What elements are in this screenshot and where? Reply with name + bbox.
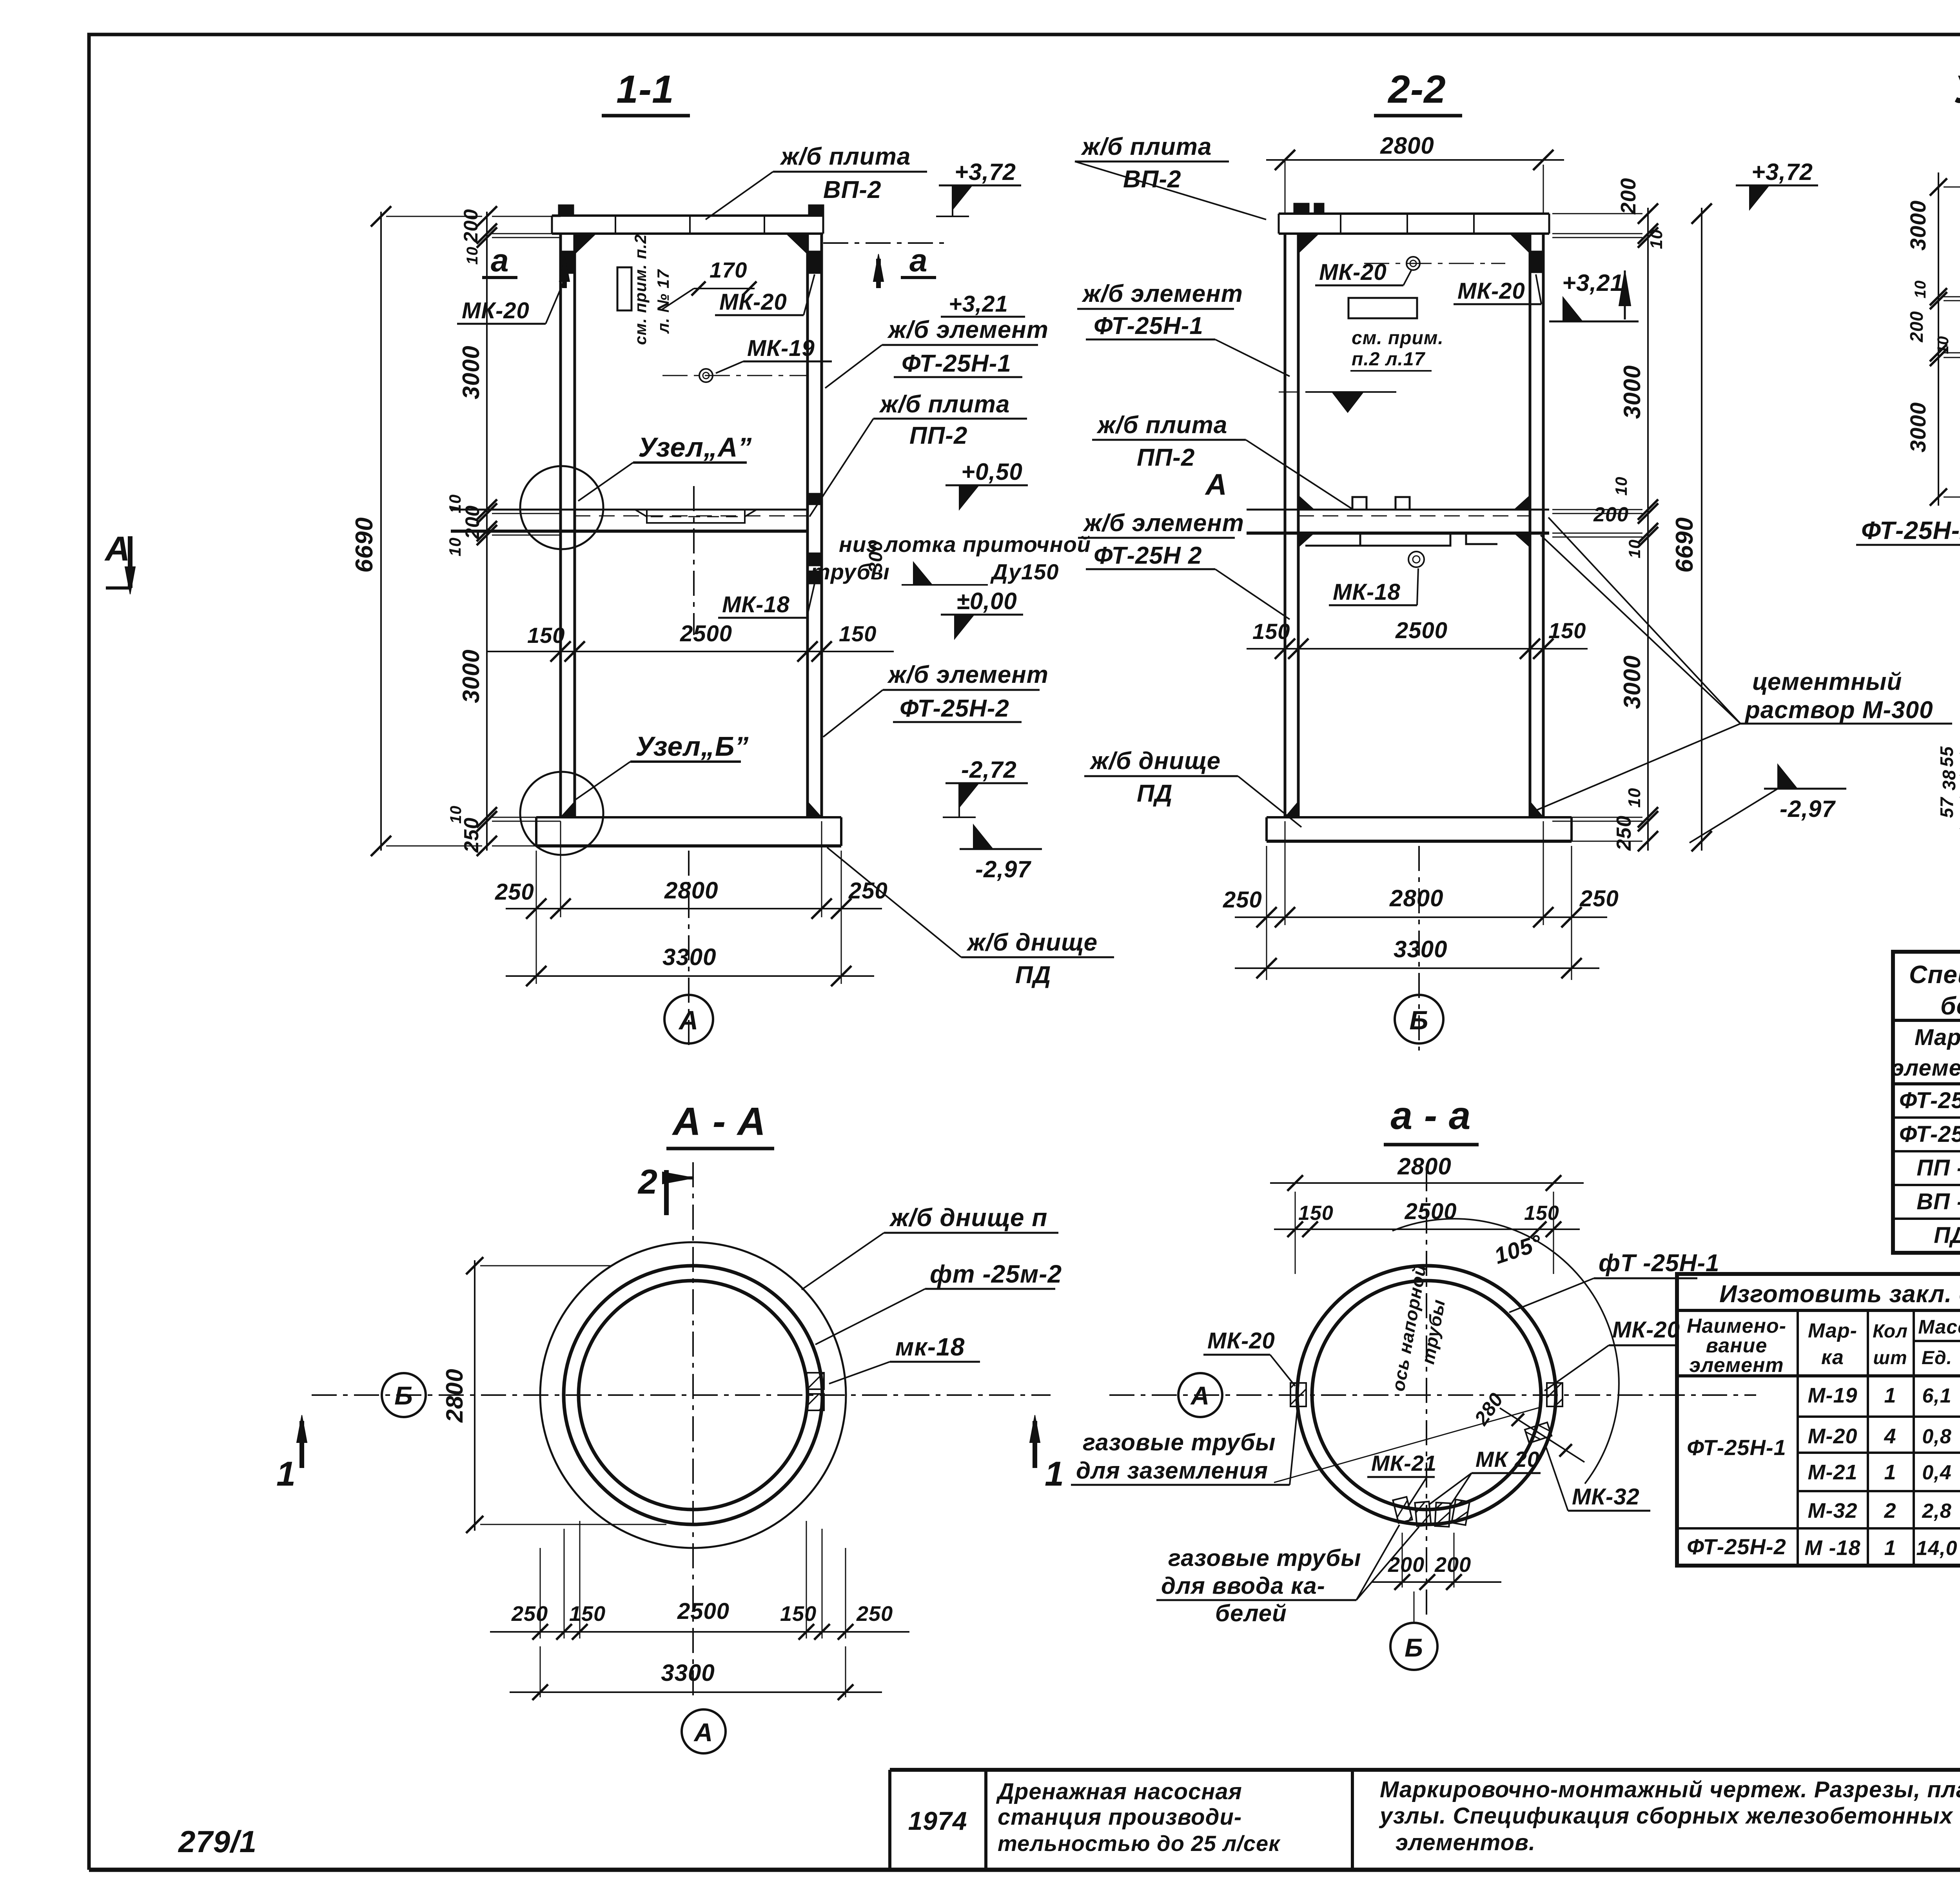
svg-text:+3,72: +3,72 xyxy=(1751,159,1813,185)
section 2-2 level mark in wall xyxy=(1305,391,1396,393)
section 1-1 top slab VP-2 xyxy=(552,214,823,217)
plan a-a ring joints left right xyxy=(1290,1383,1306,1406)
svg-text:10: 10 xyxy=(1912,280,1929,299)
svg-text:А: А xyxy=(1190,1381,1210,1410)
plan A-A base slab circle xyxy=(540,1242,846,1548)
svg-text:10: 10 xyxy=(1625,539,1644,559)
svg-text:ж/б днище: ж/б днище xyxy=(966,929,1098,956)
svg-text:раствор М-300: раствор М-300 xyxy=(1744,697,1933,724)
svg-text:МК-32: МК-32 xyxy=(1572,1484,1640,1510)
svg-text:10: 10 xyxy=(446,537,464,557)
svg-text:М-21: М-21 xyxy=(1808,1461,1857,1484)
svg-text:Изготовить закл. деталей: Изготовить закл. деталей xyxy=(1719,1281,1960,1308)
section 1-1 level +3.72 xyxy=(939,185,1021,187)
svg-text:ПП-2: ПП-2 xyxy=(909,422,967,449)
section 1-1 centre line at lotok xyxy=(693,486,695,635)
svg-text:2,8: 2,8 xyxy=(1922,1500,1951,1522)
svg-text:2500: 2500 xyxy=(1395,618,1448,643)
svg-text:10: 10 xyxy=(1647,229,1666,249)
svg-text:М-20: М-20 xyxy=(1808,1424,1857,1448)
plan a-a dims 200 200 xyxy=(1402,1533,1403,1588)
svg-text:3300: 3300 xyxy=(661,1660,715,1686)
section 1-1 opening slot xyxy=(617,267,632,310)
svg-text:150: 150 xyxy=(1298,1202,1334,1225)
svg-text:1: 1 xyxy=(276,1454,296,1493)
svg-text:1: 1 xyxy=(1884,1384,1896,1407)
section 1-1 MK-19 anchor circle xyxy=(699,369,713,382)
svg-text:Ду150: Ду150 xyxy=(990,559,1059,584)
svg-text:3000: 3000 xyxy=(1619,655,1645,709)
section 1-1 overall dim 6690 xyxy=(380,212,382,851)
svg-text:мк-18: мк-18 xyxy=(895,1333,965,1361)
section 2-2 level +3.72 right xyxy=(1736,185,1818,187)
svg-text:Дренажная насосная: Дренажная насосная xyxy=(996,1779,1242,1804)
section 1-1 wall bottom joints xyxy=(561,802,575,817)
svg-text:А: А xyxy=(693,1718,713,1747)
svg-text:МК-20: МК-20 xyxy=(1457,278,1525,304)
svg-text:узлы. Спецификация сборных: узлы. Спецификация сборных железобетонны… xyxy=(1379,1803,1954,1829)
svg-text:ПД: ПД xyxy=(1015,962,1051,989)
svg-text:ФТ-25Н-2: ФТ-25Н-2 xyxy=(900,695,1009,722)
svg-text:А - А: А - А xyxy=(671,1100,766,1143)
svg-text:элементов.: элементов. xyxy=(1396,1830,1535,1855)
svg-text:МК-18: МК-18 xyxy=(1333,579,1401,605)
section 1-1 bottom dims xyxy=(536,851,537,984)
section 1-1 middle slab PP-2 xyxy=(451,509,808,511)
svg-text:2800: 2800 xyxy=(1397,1153,1451,1179)
section 2-2 axis circle B xyxy=(1418,846,1420,1051)
plan A-A vertical dim 2800 xyxy=(474,1260,475,1531)
plan a-a centre lines xyxy=(1109,1394,1756,1396)
svg-text:250: 250 xyxy=(511,1602,548,1626)
svg-text:Мар-: Мар- xyxy=(1808,1319,1857,1342)
svg-text:п.2 л.17: п.2 л.17 xyxy=(1352,349,1426,370)
svg-text:Б: Б xyxy=(394,1381,413,1410)
section 2-2 joint corner plates at slab xyxy=(1298,495,1314,510)
svg-text:1974: 1974 xyxy=(908,1806,967,1835)
svg-text:МК-20: МК-20 xyxy=(1319,259,1387,285)
svg-text:для заземления: для заземления xyxy=(1076,1457,1268,1484)
svg-text:150: 150 xyxy=(839,621,877,646)
plan a-a 105 deg arc xyxy=(1392,1219,1619,1484)
svg-text:200: 200 xyxy=(1388,1553,1425,1577)
svg-text:2: 2 xyxy=(1884,1499,1896,1522)
svg-text:2800: 2800 xyxy=(664,877,718,904)
svg-text:ФТ-25Н-2: ФТ-25Н-2 xyxy=(1899,1121,1960,1147)
section 2-2 walls xyxy=(1284,234,1287,817)
svg-text:-2,97: -2,97 xyxy=(975,856,1031,882)
section 2-2 MK-20 anchor circle and axis xyxy=(1406,257,1420,270)
svg-text:цементный: цементный xyxy=(1752,668,1902,695)
section 2-2 right dim chain xyxy=(1647,208,1649,851)
section 1-1 cut marks a-a xyxy=(562,259,567,288)
svg-text:55: 55 xyxy=(1936,746,1957,767)
svg-text:А: А xyxy=(104,529,131,568)
section 2-2 opening slot horizontal xyxy=(1348,298,1417,318)
plan A-A bottom dims xyxy=(540,1548,541,1639)
svg-text:2800: 2800 xyxy=(441,1368,468,1423)
svg-text:ПП-2: ПП-2 xyxy=(1137,444,1195,471)
svg-text:Узел„А”: Узел„А” xyxy=(1954,67,1960,111)
plan a-a bottom joint cluster xyxy=(1393,1497,1412,1523)
svg-text:ФТ-25Н 2: ФТ-25Н 2 xyxy=(1094,542,1202,569)
svg-text:250: 250 xyxy=(1613,815,1635,851)
section 1-1 top embedded plates MK-20 xyxy=(558,205,574,216)
svg-text:2500: 2500 xyxy=(677,1599,730,1624)
plan A-A joint detail MK-18 right xyxy=(807,1373,824,1389)
svg-text:1-1: 1-1 xyxy=(616,67,674,111)
svg-text:М -18: М -18 xyxy=(1804,1536,1860,1560)
svg-text:3000: 3000 xyxy=(1619,365,1645,419)
svg-text:10: 10 xyxy=(1935,336,1952,354)
svg-text:250: 250 xyxy=(1579,886,1619,911)
svg-text:л. № 17: л. № 17 xyxy=(654,269,672,334)
svg-text:ж/б элемент: ж/б элемент xyxy=(1082,280,1243,307)
svg-text:+0,50: +0,50 xyxy=(961,459,1023,485)
svg-text:ФТ-25Н-1: ФТ-25Н-1 xyxy=(1899,1088,1960,1113)
section 2-2 dims 150 2500 150 xyxy=(1247,648,1588,650)
svg-text:2800: 2800 xyxy=(1389,885,1443,911)
svg-text:3000: 3000 xyxy=(458,649,484,703)
svg-text:газовые трубы: газовые трубы xyxy=(1083,1429,1276,1455)
svg-text:МК-20: МК-20 xyxy=(719,289,787,315)
node A floor slab PP-2 xyxy=(1944,300,1960,301)
table make embedded details xyxy=(1677,1274,1960,1566)
section 1-1 base slab PD xyxy=(536,816,841,818)
svg-text:А: А xyxy=(678,1005,699,1035)
svg-text:4: 4 xyxy=(1884,1424,1896,1448)
svg-text:+3,21: +3,21 xyxy=(1562,270,1624,296)
section 1-1 wall top joint plates xyxy=(562,251,573,274)
svg-text:фТ -25Н-1: фТ -25Н-1 xyxy=(1599,1250,1719,1277)
section 1-1 level -2.97 xyxy=(960,848,1042,850)
svg-text:МК-19: МК-19 xyxy=(747,336,815,361)
svg-text:ж/б элемент: ж/б элемент xyxy=(887,661,1049,688)
svg-text:200: 200 xyxy=(1593,503,1629,526)
plan a-a wall ring xyxy=(1297,1266,1556,1524)
svg-text:ж/б элемент: ж/б элемент xyxy=(1083,510,1244,537)
svg-text:+3,72: +3,72 xyxy=(955,159,1016,185)
svg-text:200: 200 xyxy=(1617,178,1640,214)
section 2-2 overall dim 6690 xyxy=(1701,208,1702,851)
svg-text:М-32: М-32 xyxy=(1808,1499,1857,1522)
svg-text:±0,00: ±0,00 xyxy=(956,588,1017,614)
svg-text:105°: 105° xyxy=(1491,1230,1545,1269)
svg-text:Узел„Б”: Узел„Б” xyxy=(635,731,749,762)
svg-text:279/1: 279/1 xyxy=(178,1824,257,1859)
svg-text:Маркировочно-монтажный чертеж: Маркировочно-монтажный чертеж. Разрезы, … xyxy=(1380,1777,1960,1802)
section 2-2 level -2.97 right xyxy=(1764,788,1846,790)
svg-text:станция производи-: станция производи- xyxy=(998,1804,1242,1830)
svg-text:Б: Б xyxy=(1409,1005,1428,1035)
svg-text:ж/б плита: ж/б плита xyxy=(1081,133,1212,160)
plan A-A axis B circle xyxy=(382,1373,426,1417)
svg-text:10: 10 xyxy=(1625,788,1644,808)
svg-text:Марка: Марка xyxy=(1915,1025,1960,1050)
svg-text:Узел„А”: Узел„А” xyxy=(638,432,752,463)
svg-text:элемента: элемента xyxy=(1891,1055,1960,1081)
svg-text:6,1: 6,1 xyxy=(1922,1384,1951,1407)
section 1-1 dims 150 2500 150 xyxy=(487,651,894,652)
svg-text:Б: Б xyxy=(1405,1633,1423,1662)
svg-text:150: 150 xyxy=(1548,618,1586,643)
svg-text:150: 150 xyxy=(1252,619,1290,644)
svg-text:150: 150 xyxy=(527,623,565,648)
svg-text:150: 150 xyxy=(1524,1202,1559,1225)
section 2-2 bottom dims xyxy=(1266,846,1267,980)
svg-text:14,0: 14,0 xyxy=(1916,1537,1957,1560)
svg-text:ФТ-25Н-1: ФТ-25Н-1 xyxy=(1687,1435,1786,1460)
plan a-a axis circle B xyxy=(1390,1623,1437,1670)
svg-text:для ввода ка-: для ввода ка- xyxy=(1161,1573,1325,1599)
svg-text:-2,97: -2,97 xyxy=(1780,796,1836,822)
section 1-1 level +0.50 xyxy=(946,484,1028,486)
svg-text:тельностью до 25 л/сек: тельностью до 25 л/сек xyxy=(998,1831,1281,1856)
svg-text:2800: 2800 xyxy=(1380,132,1434,159)
node A dim chain left xyxy=(1938,172,1939,506)
svg-text:элемент: элемент xyxy=(1689,1354,1784,1377)
svg-text:2500: 2500 xyxy=(680,621,732,646)
svg-text:3000: 3000 xyxy=(1906,200,1930,251)
section 2-2 wall embedded marks xyxy=(1531,251,1542,273)
svg-text:ПП - 2: ПП - 2 xyxy=(1916,1155,1960,1181)
svg-text:ВП - 2: ВП - 2 xyxy=(1916,1189,1960,1214)
svg-text:200: 200 xyxy=(1906,311,1927,343)
svg-text:Ед.: Ед. xyxy=(1922,1348,1952,1368)
svg-text:200: 200 xyxy=(460,209,482,243)
specification table of precast elements xyxy=(1893,952,1960,1253)
svg-text:250: 250 xyxy=(460,817,483,853)
svg-text:170: 170 xyxy=(710,258,747,282)
svg-text:6690: 6690 xyxy=(351,517,378,573)
svg-text:38: 38 xyxy=(1939,769,1959,790)
svg-text:МК-18: МК-18 xyxy=(722,592,790,617)
section 1-1 walls FT-25N xyxy=(559,234,562,817)
svg-text:ФТ-25Н-1: ФТ-25Н-1 xyxy=(902,350,1011,377)
svg-text:0,4: 0,4 xyxy=(1922,1461,1951,1484)
plan a-a MK-32 joint xyxy=(1525,1423,1552,1443)
svg-text:МК 20: МК 20 xyxy=(1475,1447,1540,1472)
svg-text:3000: 3000 xyxy=(1906,402,1930,453)
svg-text:2500: 2500 xyxy=(1404,1199,1457,1224)
svg-text:ВП-2: ВП-2 xyxy=(823,176,882,203)
svg-text:а - а: а - а xyxy=(1390,1094,1471,1138)
svg-text:фт -25м-2: фт -25м-2 xyxy=(930,1260,1062,1288)
svg-text:бетонных элементов.: бетонных элементов. xyxy=(1940,992,1960,1020)
svg-text:3300: 3300 xyxy=(1394,936,1447,962)
svg-text:300: 300 xyxy=(866,540,886,573)
section 2-2 base slab PD xyxy=(1267,816,1572,818)
svg-text:ж/б плита: ж/б плита xyxy=(780,143,911,170)
svg-text:а: а xyxy=(491,243,509,278)
svg-text:250: 250 xyxy=(495,879,534,905)
svg-text:А: А xyxy=(1205,468,1227,501)
svg-text:ФТ-25Н-2: ФТ-25Н-2 xyxy=(1687,1534,1786,1559)
section 1-1 node A circle xyxy=(520,466,603,549)
section 2-2 label MK-18 xyxy=(1408,552,1424,567)
section 1-1 slab recess (lotok) xyxy=(647,510,745,523)
section 2-2 top slab VP-2 xyxy=(1279,212,1549,215)
svg-text:ж/б элемент: ж/б элемент xyxy=(887,316,1049,343)
section 2-2 level +3.21 xyxy=(1549,321,1639,323)
section 1-1 axis dash-dot at top xyxy=(823,242,949,244)
svg-text:ФТ-25Н-2: ФТ-25Н-2 xyxy=(1861,516,1960,544)
svg-text:3000: 3000 xyxy=(458,345,484,399)
svg-text:1: 1 xyxy=(1884,1536,1896,1560)
svg-text:М-19: М-19 xyxy=(1808,1384,1857,1407)
svg-text:см. прим. п.2: см. прим. п.2 xyxy=(631,234,650,345)
svg-text:200: 200 xyxy=(1434,1553,1471,1577)
svg-text:а: а xyxy=(909,243,928,278)
svg-text:Масса в кг: Масса в кг xyxy=(1918,1316,1960,1338)
svg-text:2-2: 2-2 xyxy=(1387,67,1446,111)
svg-text:57: 57 xyxy=(1936,797,1957,818)
svg-text:газовые трубы: газовые трубы xyxy=(1168,1545,1361,1571)
svg-text:ПД: ПД xyxy=(1137,780,1172,807)
svg-text:Спецификация сборных железо-: Спецификация сборных железо- xyxy=(1909,960,1960,989)
svg-text:см. прим.: см. прим. xyxy=(1352,328,1444,348)
plan A-A wall ring xyxy=(564,1266,822,1524)
svg-text:250: 250 xyxy=(856,1602,893,1626)
svg-text:10: 10 xyxy=(1612,477,1630,496)
svg-text:1: 1 xyxy=(1045,1454,1064,1493)
plan a-a top dims xyxy=(1295,1192,1296,1274)
svg-text:6690: 6690 xyxy=(1671,517,1698,573)
svg-text:200: 200 xyxy=(461,505,483,539)
section 1-1 axis circle A xyxy=(688,851,690,1051)
section 2-2 top dim 2800 xyxy=(1285,160,1286,169)
svg-text:150: 150 xyxy=(780,1602,817,1626)
svg-text:ж/б плита: ж/б плита xyxy=(879,391,1010,418)
svg-text:10: 10 xyxy=(464,247,481,265)
svg-text:белей: белей xyxy=(1215,1600,1287,1626)
svg-text:-2,72: -2,72 xyxy=(961,757,1017,783)
svg-text:МК-20: МК-20 xyxy=(1207,1328,1275,1354)
section 1-1 level -2.72 xyxy=(946,782,1028,784)
svg-text:1: 1 xyxy=(1884,1461,1896,1484)
svg-text:шт: шт xyxy=(1873,1348,1907,1368)
section 1-1 dim chain left xyxy=(486,212,488,851)
plan A-A axis circle A xyxy=(682,1709,726,1753)
svg-text:Кол: Кол xyxy=(1873,1321,1908,1342)
svg-text:ка: ка xyxy=(1821,1346,1844,1369)
title block xyxy=(890,1768,1960,1772)
plan A-A cut marks 1-1 xyxy=(299,1421,304,1468)
svg-text:250: 250 xyxy=(848,878,888,904)
section 1-1 wall joint plates at slab right xyxy=(808,493,820,505)
plan A-A centre lines xyxy=(312,1394,1051,1396)
svg-text:МК-21: МК-21 xyxy=(1371,1451,1437,1475)
svg-text:150: 150 xyxy=(569,1602,606,1626)
svg-text:ж/б днище: ж/б днище xyxy=(1089,748,1221,775)
section 2-2 middle slab PP-2 with joint details xyxy=(1247,509,1549,511)
svg-text:250: 250 xyxy=(1223,887,1262,913)
svg-text:МК-20: МК-20 xyxy=(462,298,530,323)
svg-text:ПД: ПД xyxy=(1934,1223,1960,1248)
svg-text:+3,21: +3,21 xyxy=(949,291,1008,317)
svg-text:2: 2 xyxy=(637,1162,658,1201)
plan a-a axis circle A xyxy=(1178,1373,1222,1417)
svg-text:ж/б днище п: ж/б днище п xyxy=(889,1203,1047,1232)
svg-text:ж/б плита: ж/б плита xyxy=(1096,412,1227,439)
svg-text:МК-20: МК-20 xyxy=(1612,1317,1680,1343)
svg-text:ФТ-25Н-1: ФТ-25Н-1 xyxy=(1094,312,1203,339)
section 1-1 node B circle xyxy=(520,772,603,855)
section 2-2 wall bottom joints xyxy=(1285,802,1298,817)
svg-text:0,8: 0,8 xyxy=(1922,1425,1951,1448)
